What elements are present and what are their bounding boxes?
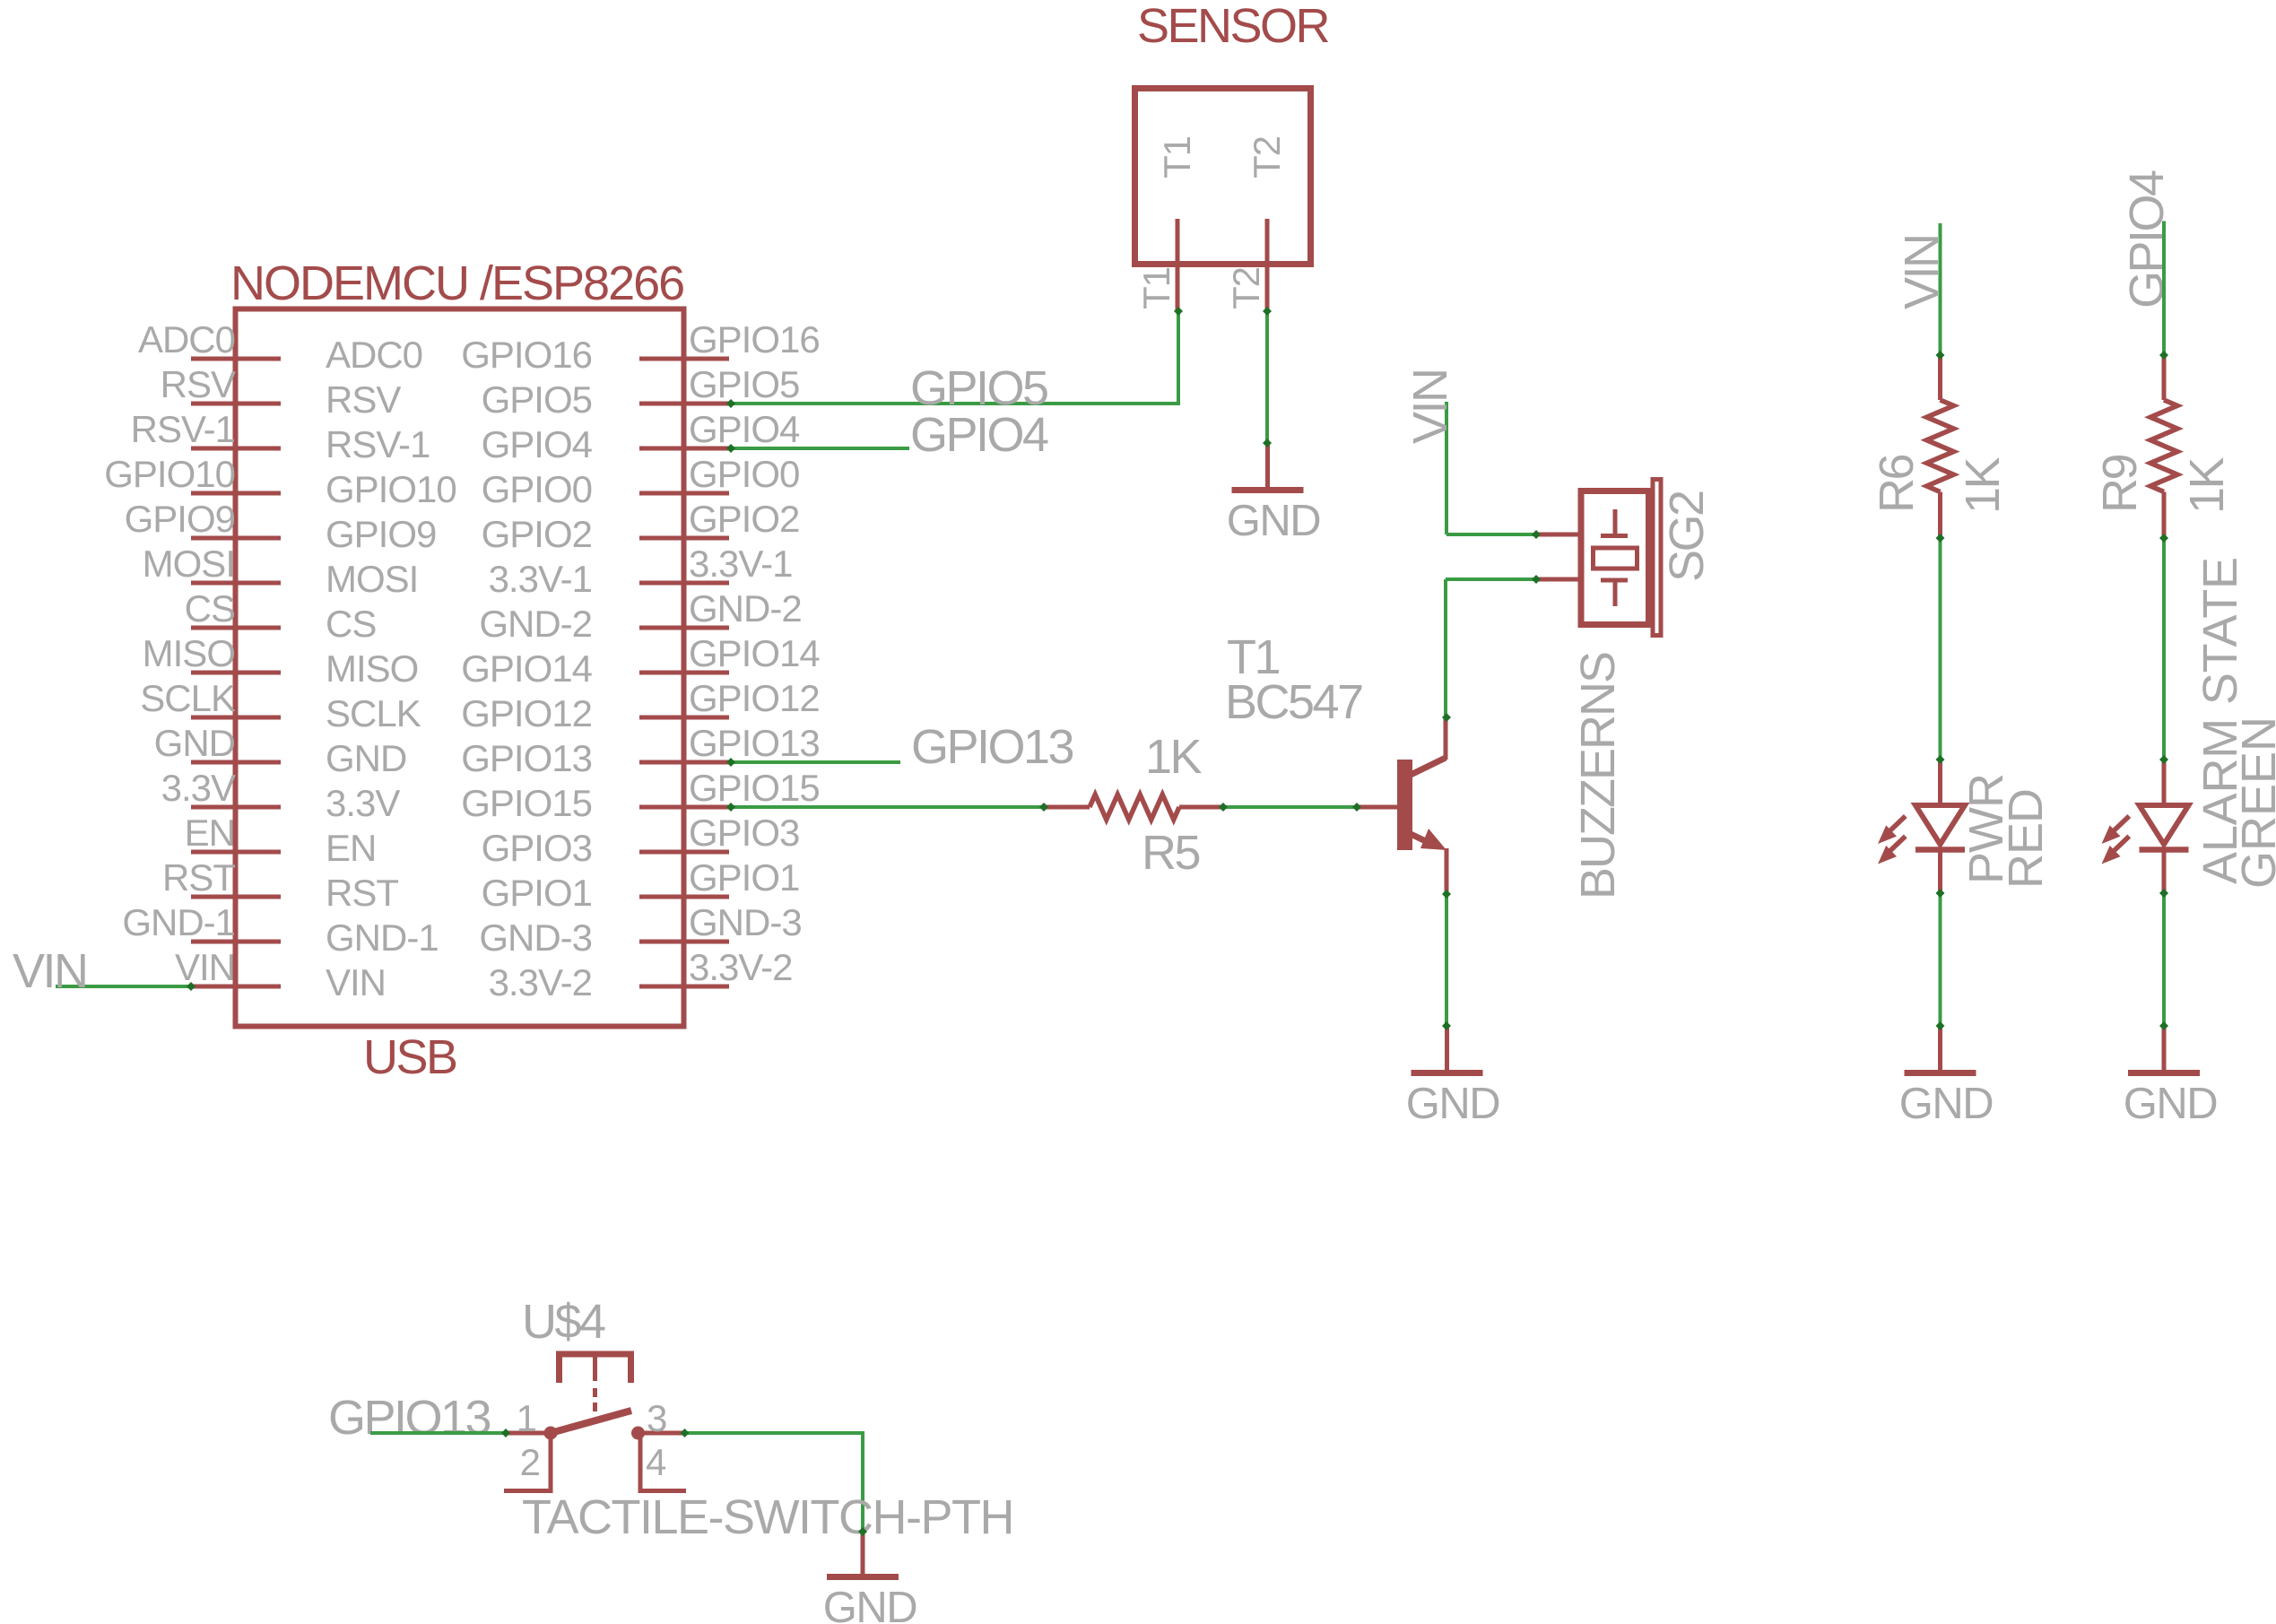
svg-text:GND: GND xyxy=(823,1584,917,1624)
svg-text:RSV-1: RSV-1 xyxy=(131,408,235,450)
svg-text:3.3V-2: 3.3V-2 xyxy=(689,946,792,988)
svg-text:U$4: U$4 xyxy=(522,1295,605,1349)
svg-text:ADC0: ADC0 xyxy=(326,334,422,376)
svg-text:MOSI: MOSI xyxy=(143,543,235,585)
svg-text:3.3V-1: 3.3V-1 xyxy=(489,558,592,600)
svg-text:GPIO9: GPIO9 xyxy=(125,498,235,540)
svg-text:GPIO3: GPIO3 xyxy=(482,827,592,869)
svg-text:SENSOR: SENSOR xyxy=(1137,0,1329,53)
svg-text:VIN: VIN xyxy=(175,946,235,988)
svg-text:GND-2: GND-2 xyxy=(479,603,592,645)
svg-text:VIN: VIN xyxy=(1403,369,1457,444)
svg-text:RSV-1: RSV-1 xyxy=(326,423,430,465)
svg-text:GPIO0: GPIO0 xyxy=(689,453,799,495)
svg-text:RED: RED xyxy=(1999,789,2053,889)
svg-text:GND-1: GND-1 xyxy=(122,901,235,943)
svg-text:SCLK: SCLK xyxy=(326,692,421,734)
svg-text:BUZZERNS: BUZZERNS xyxy=(1571,653,1625,899)
svg-text:GPIO14: GPIO14 xyxy=(689,632,820,674)
svg-text:3.3V-1: 3.3V-1 xyxy=(689,543,792,585)
svg-text:GPIO1: GPIO1 xyxy=(689,856,799,899)
svg-text:4: 4 xyxy=(646,1441,666,1483)
svg-text:GPIO1: GPIO1 xyxy=(482,872,592,914)
svg-text:GND: GND xyxy=(154,722,235,764)
svg-text:GPIO14: GPIO14 xyxy=(461,647,592,690)
svg-text:VIN: VIN xyxy=(13,944,87,998)
svg-text:1: 1 xyxy=(517,1397,536,1439)
svg-text:GPIO9: GPIO9 xyxy=(326,513,436,555)
svg-text:BC547: BC547 xyxy=(1225,675,1362,729)
svg-text:GPIO16: GPIO16 xyxy=(461,334,592,376)
svg-text:CS: CS xyxy=(326,603,376,645)
svg-text:GPIO12: GPIO12 xyxy=(689,677,820,719)
svg-text:1K: 1K xyxy=(1145,730,1203,784)
svg-text:R6: R6 xyxy=(1870,456,1924,513)
svg-text:MISO: MISO xyxy=(326,647,418,690)
svg-text:GPIO13: GPIO13 xyxy=(328,1391,491,1445)
svg-text:3: 3 xyxy=(647,1397,666,1439)
svg-text:T2: T2 xyxy=(1225,267,1267,309)
svg-text:MISO: MISO xyxy=(143,632,235,674)
svg-text:1K: 1K xyxy=(2180,456,2234,514)
svg-text:ADC0: ADC0 xyxy=(138,318,235,360)
svg-text:GPIO5: GPIO5 xyxy=(910,361,1047,415)
svg-text:GPIO13: GPIO13 xyxy=(689,722,820,764)
svg-text:RSV: RSV xyxy=(326,378,401,421)
svg-text:GPIO15: GPIO15 xyxy=(689,767,820,809)
svg-text:SG2: SG2 xyxy=(1660,491,1714,582)
svg-text:GPIO12: GPIO12 xyxy=(461,692,592,734)
svg-text:NODEMCU /ESP8266: NODEMCU /ESP8266 xyxy=(230,256,683,310)
svg-text:GPIO2: GPIO2 xyxy=(689,498,799,540)
svg-text:GPIO4: GPIO4 xyxy=(910,408,1048,462)
svg-text:3.3V: 3.3V xyxy=(161,767,236,809)
svg-text:R5: R5 xyxy=(1142,826,1199,880)
svg-text:GPIO4: GPIO4 xyxy=(689,408,800,450)
svg-text:GPIO3: GPIO3 xyxy=(689,812,799,854)
svg-text:GND: GND xyxy=(2124,1080,2218,1128)
svg-text:RST: RST xyxy=(326,872,398,914)
svg-text:3.3V-2: 3.3V-2 xyxy=(489,961,592,1003)
svg-text:GPIO4: GPIO4 xyxy=(482,423,593,465)
svg-text:TACTILE-SWITCH-PTH: TACTILE-SWITCH-PTH xyxy=(522,1490,1013,1544)
svg-text:GPIO2: GPIO2 xyxy=(482,513,592,555)
svg-text:GND-3: GND-3 xyxy=(479,916,592,959)
svg-text:GPIO10: GPIO10 xyxy=(326,468,456,510)
svg-text:GND-2: GND-2 xyxy=(689,587,802,630)
svg-text:T1: T1 xyxy=(1156,136,1198,178)
svg-text:2: 2 xyxy=(520,1441,540,1483)
svg-text:GND-3: GND-3 xyxy=(689,901,802,943)
svg-text:1K: 1K xyxy=(1956,456,2010,514)
svg-text:MOSI: MOSI xyxy=(326,558,418,600)
svg-text:T2: T2 xyxy=(1246,136,1288,178)
svg-text:CS: CS xyxy=(185,587,235,630)
svg-text:RST: RST xyxy=(162,856,235,899)
svg-text:GND: GND xyxy=(1227,497,1321,545)
svg-text:GND: GND xyxy=(1899,1080,1994,1128)
svg-text:GND: GND xyxy=(326,737,406,779)
svg-text:SCLK: SCLK xyxy=(140,677,236,719)
svg-text:GPIO0: GPIO0 xyxy=(482,468,592,510)
svg-text:GPIO5: GPIO5 xyxy=(689,363,799,405)
svg-text:GPIO15: GPIO15 xyxy=(461,782,592,824)
svg-text:GPIO16: GPIO16 xyxy=(689,318,820,360)
svg-text:EN: EN xyxy=(326,827,376,869)
svg-text:EN: EN xyxy=(185,812,235,854)
svg-text:R9: R9 xyxy=(2093,456,2147,513)
svg-text:GPIO13: GPIO13 xyxy=(461,737,592,779)
svg-text:3.3V: 3.3V xyxy=(326,782,400,824)
svg-text:GND-1: GND-1 xyxy=(326,916,439,959)
svg-text:GND: GND xyxy=(1406,1080,1500,1128)
svg-text:USB: USB xyxy=(363,1030,456,1084)
svg-text:GREEN: GREEN xyxy=(2232,716,2276,889)
svg-text:VIN: VIN xyxy=(326,961,386,1003)
svg-text:GPIO10: GPIO10 xyxy=(104,453,235,495)
svg-text:RSV: RSV xyxy=(161,363,236,405)
svg-text:T1: T1 xyxy=(1135,267,1177,309)
svg-text:GPIO13: GPIO13 xyxy=(911,720,1073,774)
svg-text:GPIO5: GPIO5 xyxy=(482,378,592,421)
